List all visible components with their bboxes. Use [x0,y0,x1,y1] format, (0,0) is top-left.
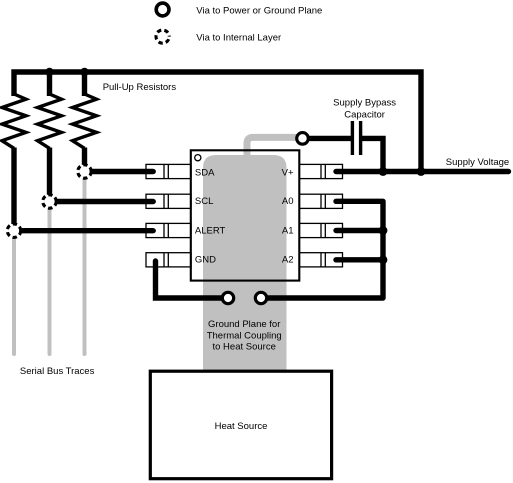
svg-text:Thermal Coupling: Thermal Coupling [207,330,282,341]
via to internal layer (SCL) [43,195,56,208]
wire SDA from via to pad [92,169,154,174]
wire capacitor to supply rail [362,138,383,171]
wire R2 top stub [47,72,52,96]
via to internal layer (ALERT) [7,224,20,237]
node junction dot rail R2 [45,68,53,76]
node junction dot supply rail at cap branch [379,167,388,176]
svg-text:A2: A2 [282,255,294,266]
capacitor C1 plate left [351,121,354,155]
wire serial bus trace 3 (gray) [83,172,87,355]
resistor R3 [73,94,97,148]
svg-text:SCL: SCL [195,196,213,207]
svg-text:Supply Voltage: Supply Voltage [446,157,509,168]
svg-text:SDA: SDA [195,168,215,179]
pin pad A0 [299,194,342,208]
resistor R2 [38,94,62,148]
svg-text:GND: GND [195,255,216,266]
via to ground plane left [222,292,233,303]
svg-text:to Heat Source: to Heat Source [213,342,276,353]
node junction dot bus A2 [379,255,388,264]
node junction dot supply rail at top drop [417,167,426,176]
wire SCL from via to pad [57,199,154,204]
wire R3 top stub [82,72,87,96]
wire R1 bottom to via [11,148,16,225]
via to ground plane right [255,292,266,303]
svg-text:Via to Internal Layer: Via to Internal Layer [196,32,281,43]
wire GND pad down to ground via [156,261,229,298]
resistor R1 [2,94,26,148]
wire R3 bottom to via [82,148,87,165]
pin pad ALERT [146,223,191,237]
legend via to internal layer symbol [156,30,169,43]
pin pad V+ [299,164,342,178]
wire serial bus trace 1 (gray) [12,231,16,354]
svg-text:Via to Power or Ground Plane: Via to Power or Ground Plane [196,6,322,17]
svg-text:A0: A0 [282,196,294,207]
wire supply rail [336,169,509,174]
svg-text:Ground Plane for: Ground Plane for [208,319,280,330]
pin pad GND [146,253,191,267]
pin pad SDA [146,164,191,178]
svg-text:Serial Bus Traces: Serial Bus Traces [20,366,95,377]
pin pad SCL [146,194,191,208]
wire ALERT from via to pad [21,228,153,233]
wire A1 stub to bus [336,228,383,233]
svg-text:Heat Source: Heat Source [215,421,268,432]
pin pad A2 [299,253,342,267]
wire gray stem from ground plane to via [247,137,303,157]
op-amp U1 body fill [191,150,299,280]
wire top rail with left drop and right drop to supply [14,72,421,172]
node junction dot rail R3 [80,68,88,76]
capacitor C1 plate right [359,121,362,155]
svg-text:Capacitor: Capacitor [344,109,385,120]
pin 1 indicator circle [195,155,201,161]
ground plane for thermal coupling (gray) [203,155,287,371]
op-amp U1 border [191,150,299,280]
wire A2 stub to bus [336,257,383,262]
svg-text:A1: A1 [282,226,294,237]
via to internal layer (SDA) [78,165,91,178]
wire R2 bottom to via [47,148,52,195]
node junction dot bus A1 [379,226,388,235]
svg-text:Pull-Up Resistors: Pull-Up Resistors [103,82,177,93]
svg-text:ALERT: ALERT [195,226,226,237]
heat source box [150,371,331,479]
wire A0 to bus and down to ground via [261,201,383,298]
legend via to power or ground plane symbol [156,3,169,16]
svg-text:Supply Bypass: Supply Bypass [333,98,396,109]
wire serial bus trace 2 (gray) [48,202,52,355]
wire via to capacitor [303,136,352,141]
via to power plane near capacitor [297,133,309,145]
pin pad A1 [299,223,342,237]
svg-text:V+: V+ [282,168,294,179]
